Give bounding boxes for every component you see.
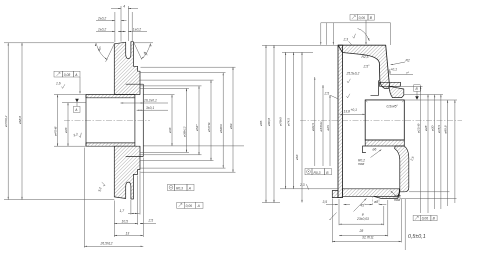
svg-text:ø57H9: ø57H9 bbox=[207, 122, 211, 132]
S transition wall (hatched) bbox=[395, 146, 409, 192]
svg-text:1,7: 1,7 bbox=[120, 209, 125, 213]
runout frame 0,06 A bbox=[177, 202, 203, 208]
angle 40 left bbox=[106, 44, 115, 62]
svg-text:ø28: ø28 bbox=[424, 125, 428, 131]
bottom band (hatched) bbox=[343, 189, 400, 197]
left big diameter ext lines bbox=[4, 42, 114, 44]
svg-text:2±0,2: 2±0,2 bbox=[97, 17, 106, 21]
svg-text:1±0,2: 1±0,2 bbox=[98, 27, 106, 31]
svg-text:ø54*: ø54* bbox=[195, 124, 199, 131]
frame 0,06 B bottom bbox=[413, 215, 420, 220]
svg-text:0,06: 0,06 bbox=[359, 16, 366, 20]
svg-text:25,5±0,2: 25,5±0,2 bbox=[346, 72, 360, 76]
svg-text:R2,5: R2,5 bbox=[362, 55, 369, 59]
svg-text:ø68,8: ø68,8 bbox=[18, 116, 22, 124]
svg-text:ø42,5: ø42,5 bbox=[311, 123, 315, 131]
seat lip bbox=[380, 82, 401, 86]
svg-text:32,7h11: 32,7h11 bbox=[362, 236, 374, 240]
dim ø70±0,2 bbox=[7, 43, 9, 199]
svg-text:26,5h12: 26,5h12 bbox=[100, 242, 113, 246]
svg-text:4: 4 bbox=[123, 4, 125, 8]
step lines left of seat bbox=[371, 81, 380, 96]
right vertical diameter dims bbox=[420, 87, 422, 214]
hub right dims 10,2 / 3 bbox=[121, 98, 169, 110]
svg-text:10,2±0,1: 10,2±0,1 bbox=[144, 98, 157, 102]
datum A bbox=[73, 99, 80, 113]
svg-text:ø: ø bbox=[362, 212, 364, 216]
svg-text:ø76h9: ø76h9 bbox=[278, 117, 282, 126]
svg-text:0,08: 0,08 bbox=[64, 73, 71, 77]
top extension lines bbox=[321, 22, 391, 24]
bore rectangle bbox=[365, 100, 404, 140]
dim ø54 bbox=[198, 86, 200, 155]
svg-text:28: 28 bbox=[359, 229, 364, 233]
axis centerline left view bbox=[64, 119, 150, 121]
angle 40 right bbox=[133, 42, 141, 60]
left wall foot bbox=[332, 191, 338, 198]
svg-text:2,3: 2,3 bbox=[299, 183, 305, 187]
svg-text:ø78,5: ø78,5 bbox=[437, 125, 441, 133]
svg-text:2,5°: 2,5° bbox=[363, 64, 371, 68]
axis centerline right view bbox=[300, 119, 462, 121]
dim ø43 bbox=[67, 103, 69, 146]
svg-text:ø33h11: ø33h11 bbox=[319, 121, 323, 132]
svg-text:R0,3: R0,3 bbox=[176, 187, 183, 191]
svg-text:0,06: 0,06 bbox=[186, 204, 193, 208]
right side diameter dims of left view bbox=[141, 67, 245, 172]
dim ø57H9 bbox=[210, 80, 212, 160]
svg-text:23±0,03: 23±0,03 bbox=[356, 217, 369, 221]
dim ø64h9 bbox=[222, 73, 224, 168]
top rim block (hatched) bbox=[114, 42, 140, 95]
svg-text:ø8: ø8 bbox=[374, 200, 378, 204]
roughness + angle leader top bbox=[352, 34, 356, 39]
between-views diameter dims bbox=[262, 44, 338, 46]
right foot bbox=[389, 86, 404, 97]
circular runout frame R0,3 A bbox=[168, 184, 195, 190]
small left step under band bbox=[363, 146, 366, 153]
svg-text:R2: R2 bbox=[406, 58, 410, 62]
svg-text:ø63: ø63 bbox=[295, 154, 299, 160]
dim 28 bbox=[387, 200, 389, 236]
svg-text:max: max bbox=[358, 162, 365, 166]
svg-text:+0,1: +0,1 bbox=[351, 108, 358, 112]
svg-text:ø64h9: ø64h9 bbox=[219, 124, 223, 133]
svg-text:ø25: ø25 bbox=[326, 125, 330, 131]
bore chamfers bbox=[365, 100, 367, 102]
small hole 45deg bbox=[371, 196, 373, 206]
runout frame 0,06 B top bbox=[350, 15, 357, 21]
svg-text:2,3: 2,3 bbox=[343, 37, 349, 41]
left wall (hatched) bbox=[338, 45, 343, 197]
hub ext lines bbox=[54, 94, 86, 96]
svg-text:ø80,8: ø80,8 bbox=[444, 125, 448, 133]
right ext lines bbox=[390, 73, 414, 75]
dim ø47H8 bbox=[57, 95, 59, 146]
hub left face bbox=[85, 95, 87, 147]
svg-text:ø38h12: ø38h12 bbox=[183, 126, 187, 137]
svg-text:max: max bbox=[394, 198, 401, 202]
svg-text:3±0,1: 3±0,1 bbox=[146, 106, 154, 110]
svg-text:ø47H8: ø47H8 bbox=[54, 126, 58, 136]
svg-text:2°: 2° bbox=[405, 71, 410, 75]
extra top vertical bbox=[325, 23, 327, 45]
svg-text:ø80,8: ø80,8 bbox=[267, 118, 271, 126]
top band and right wall (hatched) bbox=[338, 45, 390, 88]
svg-text:13,8: 13,8 bbox=[344, 110, 351, 114]
hub top wall (hatched) bbox=[86, 95, 135, 98]
dim ø69 bbox=[232, 67, 234, 172]
svg-text:ø30: ø30 bbox=[431, 125, 435, 131]
svg-text:ø69: ø69 bbox=[229, 123, 233, 129]
dim ø68,8 bbox=[21, 43, 23, 199]
hub bottom wall (hatched) bbox=[86, 143, 135, 146]
bottom band chamfer step bbox=[374, 192, 400, 199]
band under bore (hatched) bbox=[365, 140, 404, 146]
svg-text:0,06: 0,06 bbox=[422, 217, 429, 221]
svg-text:2,5: 2,5 bbox=[148, 218, 154, 222]
svg-text:ø85: ø85 bbox=[259, 120, 263, 126]
svg-text:ø6: ø6 bbox=[373, 148, 377, 152]
dim 32,7h11 bbox=[331, 199, 333, 243]
svg-text:ø74,5: ø74,5 bbox=[286, 118, 290, 126]
leader slash bbox=[330, 213, 337, 220]
svg-text:ø43: ø43 bbox=[64, 127, 68, 133]
svg-text:0,5x45°: 0,5x45° bbox=[387, 105, 399, 109]
svg-text:13: 13 bbox=[126, 231, 130, 235]
dim 4 bbox=[111, 8, 121, 10]
svg-text:+0,1: +0,1 bbox=[391, 67, 398, 71]
svg-text:1,6: 1,6 bbox=[56, 82, 61, 86]
svg-text:10,5: 10,5 bbox=[122, 219, 129, 223]
svg-text:ø21H9: ø21H9 bbox=[417, 123, 421, 133]
top extension verticals bbox=[114, 12, 116, 42]
svg-text:R0,3: R0,3 bbox=[314, 171, 321, 175]
bottom rim block (hatched, mirror) bbox=[114, 146, 140, 199]
svg-text:0,5±0,1: 0,5±0,1 bbox=[408, 234, 426, 240]
svg-text:ø33: ø33 bbox=[168, 127, 172, 133]
dim ø33 bbox=[171, 95, 173, 146]
datum B bbox=[414, 85, 421, 92]
disc web faces (uncut) bbox=[134, 98, 136, 143]
dim 23±0,03 bbox=[338, 199, 340, 225]
svg-text:ø70±0,2: ø70±0,2 bbox=[4, 115, 8, 127]
bottom dims bbox=[84, 148, 156, 248]
runout frame 0,08 A bbox=[54, 71, 81, 94]
svg-text:3,5: 3,5 bbox=[323, 200, 328, 204]
svg-text:1±0,2: 1±0,2 bbox=[133, 27, 141, 31]
left-of-wall diameter dims bbox=[314, 77, 316, 166]
frame R0,3 B bbox=[305, 169, 312, 175]
dim ø38h12 bbox=[186, 89, 188, 153]
svg-text:2,5: 2,5 bbox=[324, 92, 330, 96]
